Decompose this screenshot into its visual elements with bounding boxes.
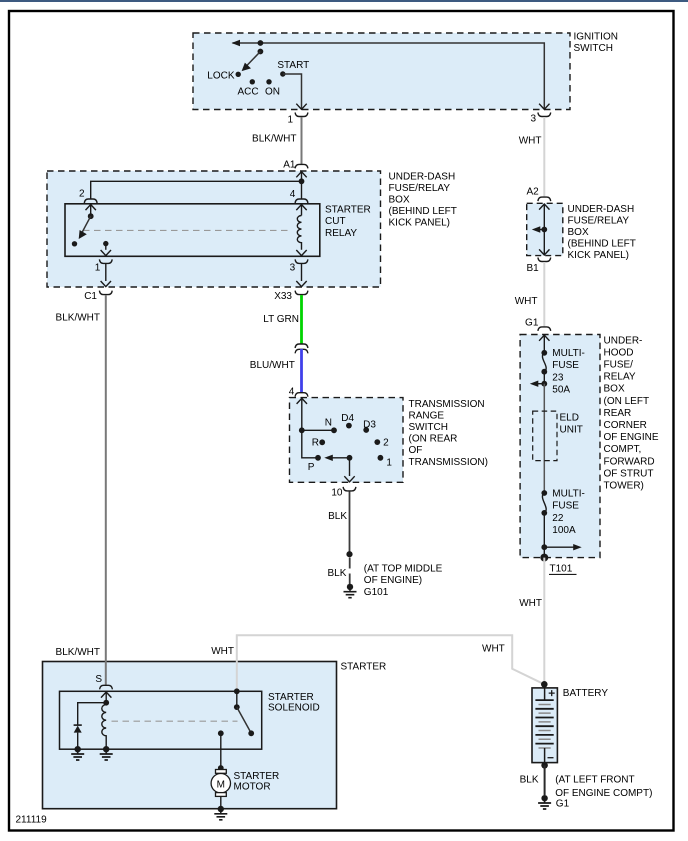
switch wiper arm (324, 455, 349, 461)
svg-text:BOX: BOX (568, 227, 589, 238)
svg-text:UNDER-: UNDER- (604, 335, 643, 346)
svg-text:ELD: ELD (560, 412, 579, 423)
solenoid switch top contact (234, 688, 240, 694)
ignition switch box (193, 32, 618, 110)
wire relay pin3 to X33 (301, 264, 303, 281)
svg-text:(ON LEFT: (ON LEFT (604, 396, 650, 407)
relay switch lever (79, 216, 91, 239)
node A2-B1 junction (541, 227, 547, 233)
node motor terminal (218, 765, 224, 771)
svg-text:G1: G1 (525, 318, 539, 329)
wire WHT B1 to G1 (515, 262, 545, 327)
battery (532, 688, 608, 765)
svg-text:BLK: BLK (327, 568, 346, 579)
svg-text:SWITCH: SWITCH (574, 43, 613, 54)
svg-text:X33: X33 (274, 291, 292, 302)
svg-text:BLK: BLK (520, 775, 539, 786)
ELD unit (533, 411, 583, 461)
node feed junction (258, 40, 264, 46)
node output branch (541, 544, 547, 550)
node 2 (374, 438, 389, 449)
node 1 (378, 455, 393, 469)
svg-text:3: 3 (530, 114, 536, 125)
wire WHT T101 to battery (519, 558, 544, 685)
wire BLK pin 10 down (328, 491, 349, 554)
svg-text:OF ENGINE COMPT): OF ENGINE COMPT) (555, 788, 652, 799)
wire down through ELD (543, 384, 545, 493)
pin 4 transmission range switch (289, 387, 308, 398)
wire ignition feed to pin 3 (232, 40, 545, 103)
svg-text:KICK PANEL): KICK PANEL) (389, 218, 451, 229)
node fuse23 branch (541, 381, 547, 387)
svg-text:IGNITION: IGNITION (574, 32, 618, 43)
svg-text:D3: D3 (363, 419, 376, 430)
svg-text:B1: B1 (526, 263, 539, 274)
svg-text:(BEHIND LEFT: (BEHIND LEFT (568, 239, 636, 250)
pin 3 starter cut relay (290, 250, 308, 274)
svg-text:ON: ON (265, 86, 280, 97)
svg-text:TRANSMISSION): TRANSMISSION) (409, 457, 488, 468)
under-dash fuse/relay box right (527, 203, 636, 261)
node switch common (299, 427, 305, 433)
diode D1 (74, 725, 82, 749)
svg-text:MOTOR: MOTOR (234, 782, 271, 793)
svg-text:1: 1 (95, 263, 101, 274)
svg-text:RANGE: RANGE (409, 410, 445, 421)
pin 1 starter cut relay (95, 244, 112, 274)
branch arrow right (544, 544, 581, 550)
svg-text:MULTI-: MULTI- (552, 489, 585, 500)
svg-text:TOWER): TOWER) (604, 481, 644, 492)
svg-text:M: M (217, 780, 225, 791)
pin S connector (95, 674, 112, 689)
node LOCK (207, 70, 241, 81)
svg-text:(BEHIND LEFT: (BEHIND LEFT (389, 206, 457, 217)
svg-text:(ON REAR: (ON REAR (409, 434, 458, 445)
svg-text:(AT TOP MIDDLE: (AT TOP MIDDLE (364, 564, 443, 575)
svg-text:BATTERY: BATTERY (563, 688, 609, 699)
svg-text:10: 10 (331, 487, 343, 498)
transmission range switch box (290, 398, 488, 483)
ground coil branch (103, 746, 109, 752)
svg-text:LT GRN: LT GRN (263, 314, 299, 325)
svg-text:OF: OF (409, 445, 423, 456)
pin C1 connector (84, 281, 112, 302)
pin X33 connector (274, 281, 308, 302)
svg-text:CUT: CUT (325, 216, 346, 227)
pin A1 connector (283, 159, 308, 170)
svg-text:MULTI-: MULTI- (552, 348, 585, 359)
svg-text:4: 4 (290, 189, 296, 200)
solenoid switch open contact (248, 730, 254, 736)
svg-text:BOX: BOX (389, 195, 410, 206)
svg-text:LOCK: LOCK (207, 70, 235, 81)
starter box (43, 662, 387, 809)
pin A2 connector (526, 187, 550, 202)
ground G1 (538, 775, 652, 810)
svg-text:BLK: BLK (328, 511, 347, 522)
svg-text:RELAY: RELAY (325, 228, 357, 239)
svg-text:WHT: WHT (482, 644, 505, 655)
svg-text:23: 23 (552, 372, 564, 383)
inline connector (295, 344, 308, 353)
svg-text:START: START (277, 60, 309, 71)
pin B1 connector (526, 258, 550, 275)
relay coil (297, 216, 301, 250)
node N (325, 417, 337, 433)
svg-text:CORNER: CORNER (604, 420, 647, 431)
wire START to pin 1 (283, 74, 302, 103)
ground G101 (344, 564, 443, 598)
svg-text:WHT: WHT (211, 646, 234, 657)
svg-text:ACC: ACC (238, 86, 259, 97)
multi-fuse 23 50A (541, 348, 584, 395)
node R (312, 438, 325, 449)
node P (308, 455, 321, 473)
relay link dashed (83, 229, 292, 231)
svg-text:STARTER: STARTER (325, 205, 371, 216)
svg-text:BLK/WHT: BLK/WHT (56, 313, 100, 324)
solenoid motor contact (218, 730, 224, 736)
svg-text:C1: C1 (84, 291, 97, 302)
svg-text:TRANSMISSION: TRANSMISSION (409, 399, 485, 410)
svg-text:STARTER: STARTER (341, 662, 387, 673)
svg-text:HOOD: HOOD (604, 347, 634, 358)
svg-text:(AT LEFT FRONT: (AT LEFT FRONT (555, 775, 634, 786)
wire through box A2 to B1 (539, 204, 549, 255)
svg-text:FUSE: FUSE (552, 501, 579, 512)
node A1 junction (299, 178, 305, 184)
terminal T101 (540, 547, 576, 574)
pin G1 connector (525, 318, 551, 331)
switch lever (242, 52, 261, 72)
multi-fuse 22 100A (541, 489, 584, 536)
svg-text:4: 4 (289, 387, 295, 398)
svg-text:50A: 50A (552, 384, 570, 395)
node START (277, 60, 309, 77)
svg-text:1: 1 (287, 115, 293, 126)
svg-text:UNIT: UNIT (560, 425, 583, 436)
wire BLK dashed to ground (327, 558, 349, 585)
svg-text:2: 2 (79, 189, 85, 200)
wire BLK battery to ground (520, 765, 545, 795)
svg-text:COMPT,: COMPT, (604, 444, 642, 455)
svg-text:UNDER-DASH: UNDER-DASH (568, 204, 635, 215)
starter motor M (211, 770, 279, 797)
svg-text:UNDER-DASH: UNDER-DASH (389, 171, 456, 182)
svg-text:A2: A2 (526, 187, 539, 198)
pin 1 ignition switch (287, 103, 307, 126)
solenoid link dashed (112, 720, 238, 722)
svg-text:2: 2 (383, 438, 389, 449)
branch arrow left (530, 381, 545, 387)
node battery junction (541, 681, 548, 688)
svg-text:REAR: REAR (604, 408, 632, 419)
node battery negative (541, 762, 548, 769)
svg-text:22: 22 (552, 513, 564, 524)
ground starter motor (218, 806, 224, 812)
pin 3 ignition switch (530, 103, 550, 125)
svg-text:100A: 100A (552, 525, 576, 536)
node solenoid input (103, 700, 109, 706)
wire A1 into box (296, 172, 306, 182)
svg-text:OF ENGINE: OF ENGINE (604, 432, 659, 443)
branch arrow left (532, 226, 545, 232)
wire fuse23 to branch (543, 372, 545, 384)
svg-text:STARTER: STARTER (268, 692, 314, 703)
svg-text:D4: D4 (341, 413, 354, 424)
svg-text:SOLENOID: SOLENOID (268, 703, 320, 714)
wire relay pin1 to C1 (105, 264, 107, 281)
starter cut relay (65, 204, 371, 256)
svg-text:A1: A1 (283, 159, 296, 170)
pin 10 connector (331, 487, 356, 498)
wire pin 4 into switch (297, 398, 307, 430)
wire S into solenoid (101, 692, 111, 703)
svg-text:S: S (95, 674, 102, 685)
svg-text:G101: G101 (364, 587, 389, 598)
node D4 (341, 413, 354, 429)
under-dash fuse/relay box (47, 171, 457, 287)
svg-text:KICK PANEL): KICK PANEL) (568, 250, 630, 261)
svg-text:FORWARD: FORWARD (604, 456, 655, 467)
node BLK junction (346, 551, 352, 557)
wire WHT pin3 to A2 (519, 117, 545, 197)
wire LT GRN (263, 295, 301, 344)
solenoid switch pivot (234, 704, 240, 710)
wire wiper to pin 10 (344, 458, 354, 482)
svg-text:BLK/WHT: BLK/WHT (56, 647, 100, 658)
wire BLK/WHT C1 to S (56, 295, 106, 685)
switch pivot (258, 49, 264, 55)
svg-text:FUSE/RELAY: FUSE/RELAY (389, 183, 451, 194)
relay contact to pin 1 (103, 241, 108, 246)
wire motor to ground (220, 796, 222, 809)
svg-text:FUSE: FUSE (552, 360, 579, 371)
node ACC (238, 79, 259, 97)
svg-text:1: 1 (386, 457, 392, 468)
starter solenoid box (60, 691, 320, 749)
svg-text:P: P (308, 462, 315, 473)
under-hood fuse/relay box (520, 335, 659, 558)
svg-text:211119: 211119 (16, 814, 48, 825)
node D3 (363, 419, 376, 433)
svg-text:G1: G1 (556, 798, 570, 809)
svg-text:BLU/WHT: BLU/WHT (250, 360, 295, 371)
wire contact to motor (220, 733, 222, 768)
solenoid switch lever (237, 707, 250, 731)
node wiper pivot (347, 455, 353, 461)
svg-text:SWITCH: SWITCH (409, 422, 448, 433)
svg-text:3: 3 (290, 263, 296, 274)
relay switch pivot (88, 213, 94, 219)
svg-text:FUSE/: FUSE/ (604, 360, 634, 371)
wire G1 into box (539, 335, 549, 353)
solenoid switch wire (236, 691, 238, 707)
pin 2 starter cut relay (79, 189, 97, 217)
svg-text:BOX: BOX (604, 384, 625, 395)
svg-text:RELAY: RELAY (604, 372, 636, 383)
wire fuse22 down (543, 513, 545, 547)
node ON (265, 79, 280, 97)
svg-text:WHT: WHT (519, 598, 542, 609)
solenoid coil (102, 703, 106, 750)
svg-text:OF ENGINE): OF ENGINE) (364, 575, 422, 586)
ground diode branch (75, 746, 81, 752)
wire BLK/WHT pin1 to A1 (252, 117, 301, 164)
wire WHT solenoid to battery (211, 635, 544, 691)
relay contact open (72, 241, 77, 246)
relay coil branch (301, 181, 303, 199)
svg-text:OF STRUT: OF STRUT (604, 468, 654, 479)
svg-text:WHT: WHT (515, 296, 538, 307)
svg-text:T101: T101 (550, 564, 573, 575)
wire junction to relay pin 2 (91, 181, 302, 199)
wire common to N (302, 429, 334, 431)
wire to diode (78, 703, 107, 725)
svg-text:WHT: WHT (519, 136, 542, 147)
svg-text:BLK/WHT: BLK/WHT (252, 134, 296, 145)
svg-text:N: N (325, 417, 332, 428)
wire common down to P (302, 430, 318, 458)
pin 4 starter cut relay (290, 189, 308, 215)
svg-text:FUSE/RELAY: FUSE/RELAY (568, 215, 630, 226)
wire BLU/WHT (250, 349, 302, 392)
svg-text:R: R (312, 438, 319, 449)
